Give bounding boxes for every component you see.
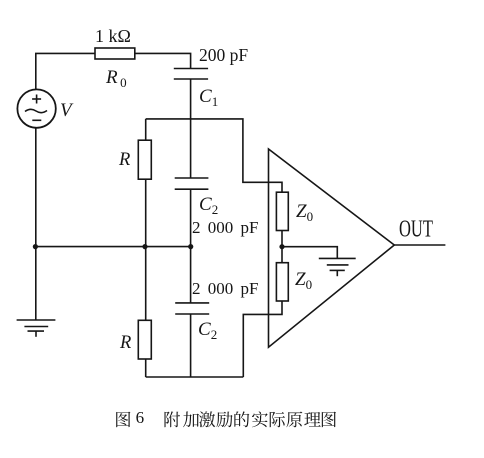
label C2 upper [199, 194, 218, 218]
bottom rail wire [146, 376, 244, 378]
wire top horizontal to R0 [35, 52, 95, 54]
wire node to upper R ladder: horizontal y=118.7 [146, 119, 282, 192]
wire node to ground [35, 247, 37, 320]
wire Z0 junction to internal ground [282, 247, 337, 259]
capacitor C2 lower [175, 302, 209, 304]
node dot middle [142, 244, 147, 249]
label OUT [399, 214, 433, 244]
impedance Z0 lower [276, 263, 288, 301]
label R0 [106, 67, 127, 91]
label R upper [119, 150, 130, 171]
wire stub upper R top [145, 119, 147, 140]
label 2000pF upper [192, 218, 258, 238]
resistor R lower [138, 320, 151, 359]
label Z0 lower [295, 269, 312, 293]
wire upper R bottom to node [145, 179, 147, 246]
wire top-left vertical [35, 53, 37, 89]
wire R0 to C1 top [135, 53, 191, 68]
wire junction to lower Z0 [281, 247, 283, 263]
resistor R0 [95, 48, 135, 59]
wire C1 down to upper C2 [190, 79, 192, 178]
node row wire [35, 246, 191, 248]
wire node down to lower R [145, 247, 147, 321]
label 200 pF [199, 45, 248, 66]
label Z0 upper [296, 201, 313, 225]
node dot right [188, 244, 193, 249]
wire lower C2 to bottom rail [190, 314, 192, 377]
voltage source V [17, 89, 55, 127]
ground internal (op-amp reference) [319, 258, 356, 276]
capacitor C1 [174, 68, 208, 70]
impedance Z0 upper [276, 192, 288, 230]
capacitor C2 upper [175, 177, 209, 179]
resistor R upper [138, 140, 151, 179]
caption chinese text paths [116, 411, 336, 427]
wire node down to lower C2 [190, 247, 192, 303]
wire upper Z0 bottom to junction [281, 231, 283, 247]
label R lower [120, 333, 131, 354]
wire lower R bottom to bottom rail [145, 359, 147, 377]
wire V bottom to node [35, 128, 37, 247]
wire bottom rail up to lower Z0 [243, 301, 282, 377]
node dot Z0 junction [279, 244, 284, 249]
label C1 [199, 86, 218, 110]
node dot left [33, 244, 38, 249]
label V [60, 100, 72, 122]
output wire [394, 244, 445, 246]
label 1 kOhm [95, 26, 131, 47]
caption figure number 6 [136, 408, 145, 428]
ground left [17, 320, 56, 337]
label C2 lower [198, 319, 217, 343]
op-amp U1 triangle [269, 149, 395, 347]
wire upper C2 to node [190, 189, 192, 246]
label 2000pF lower [192, 279, 258, 299]
